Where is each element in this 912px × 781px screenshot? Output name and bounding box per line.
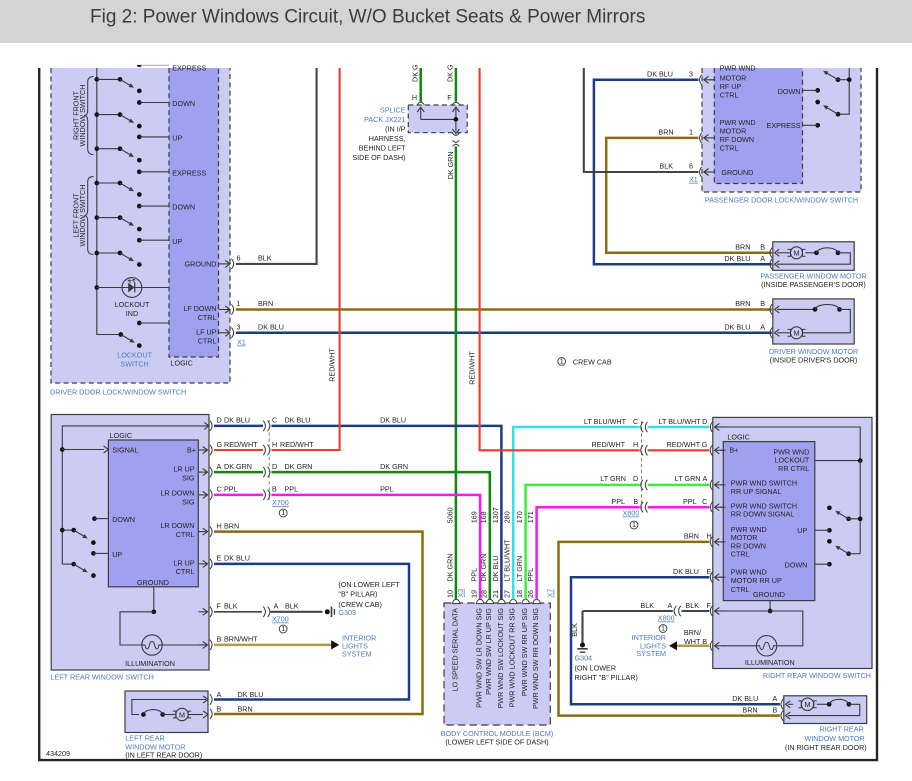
svg-text:PWR WND SW LOCKOUT SIG: PWR WND SW LOCKOUT SIG [496, 608, 505, 709]
svg-text:PACK JX221: PACK JX221 [364, 115, 405, 124]
svg-text:LOGIC: LOGIC [171, 359, 193, 368]
passenger motor internal wiring [774, 252, 776, 254]
svg-text:GROUND: GROUND [721, 168, 753, 177]
passenger switch pin 3 RF UP CTRL [647, 69, 715, 85]
svg-text:EXPRESS: EXPRESS [767, 121, 801, 130]
svg-text:DK BLU: DK BLU [647, 69, 673, 78]
svg-text:LEFT REAR WINDOW SWITCH: LEFT REAR WINDOW SWITCH [51, 673, 154, 682]
driver motor internal wiring [774, 308, 776, 310]
svg-text:DK GRN: DK GRN [224, 462, 252, 471]
wire DK BLU right-rear rr-up to motor pin A [571, 577, 780, 704]
svg-text:1: 1 [560, 357, 564, 366]
passenger switch internal contacts [803, 68, 852, 128]
right rear switch logic box [723, 442, 815, 601]
svg-text:BRN: BRN [684, 532, 699, 541]
svg-text:PWR WND SW LR DOWN SIG: PWR WND SW LR DOWN SIG [475, 608, 484, 708]
svg-text:280: 280 [503, 511, 512, 523]
svg-text:G: G [217, 440, 223, 449]
svg-text:DK BLU: DK BLU [724, 254, 750, 263]
BCM pin 19 PPL 169 [476, 599, 483, 603]
driver switch contact row DOWN y206.1 [137, 203, 195, 212]
svg-text:PWR WND SW RR UP SIG: PWR WND SW RR UP SIG [520, 608, 529, 697]
passenger motor pin A [770, 259, 772, 269]
svg-text:BLK: BLK [659, 162, 673, 171]
driver window switch contact set 5 [94, 215, 141, 231]
svg-text:C: C [633, 417, 638, 426]
svg-text:RR UP SIGNAL: RR UP SIGNAL [731, 487, 782, 496]
svg-text:A: A [760, 323, 765, 332]
left rear motor pin B [210, 709, 212, 719]
svg-text:DK BLU: DK BLU [258, 323, 284, 332]
left rear switch up contact [91, 551, 96, 556]
driver switch contact row DOWN y102.5 [137, 99, 195, 108]
svg-text:B+: B+ [187, 446, 196, 455]
BCM pin 27 LT BLU/WHT 280 [510, 599, 517, 603]
wire BLK left-rear to ground G303 [214, 611, 262, 613]
svg-text:DOWN: DOWN [785, 561, 808, 570]
lockout indicator LED [94, 278, 169, 318]
svg-text:SIG: SIG [182, 474, 195, 483]
wire PPL 169 left-rear to BCM pin 19 [214, 494, 263, 497]
svg-text:INTERIOR: INTERIOR [632, 633, 666, 642]
svg-text:SIGNAL: SIGNAL [112, 446, 138, 455]
svg-text:CREW CAB: CREW CAB [573, 357, 612, 366]
svg-text:UP: UP [797, 526, 807, 535]
crew cab footnote [558, 358, 566, 366]
svg-text:LOGIC: LOGIC [110, 431, 132, 440]
BCM pin 18 LT GRN 170 [522, 599, 529, 603]
svg-text:H: H [707, 532, 712, 541]
svg-text:X800: X800 [658, 614, 675, 623]
passenger motor pin B [770, 248, 772, 258]
passenger switch pin 6 GROUND [659, 162, 714, 178]
svg-text:SIG: SIG [182, 497, 195, 506]
svg-text:RR CTRL: RR CTRL [778, 464, 809, 473]
svg-text:CTRL: CTRL [176, 530, 195, 539]
svg-text:RED/WHT: RED/WHT [280, 440, 314, 449]
svg-text:DK BLU: DK BLU [732, 694, 758, 703]
driver window switch contact set 4 [94, 181, 141, 197]
svg-text:WHT B: WHT B [684, 637, 707, 646]
svg-text:F: F [447, 93, 452, 102]
wire DK GRN into splice pin H [419, 68, 422, 102]
svg-text:SPLICE: SPLICE [380, 105, 406, 114]
svg-text:RIGHT REAR WINDOW SWITCH: RIGHT REAR WINDOW SWITCH [763, 671, 871, 680]
svg-text:LR DOWN: LR DOWN [161, 489, 195, 498]
svg-text:RR DOWN SIGNAL: RR DOWN SIGNAL [731, 510, 795, 519]
svg-text:BRN: BRN [258, 299, 273, 308]
svg-text:LR UP: LR UP [173, 465, 194, 474]
wire LT GRN 170 BCM pin 18 to right rear A [526, 485, 640, 600]
svg-text:DK GRN: DK GRN [479, 554, 488, 582]
svg-text:PPL: PPL [224, 485, 238, 494]
svg-text:C: C [702, 497, 707, 506]
svg-text:A: A [760, 254, 765, 263]
right rear motor internal wiring [785, 703, 787, 705]
svg-text:RED/WHT: RED/WHT [328, 348, 337, 382]
svg-text:CTRL: CTRL [198, 336, 217, 345]
wire BRN left-rear lr-down to motor pin B [214, 532, 423, 714]
BCM pin 10 DK GRN 5060 [453, 599, 460, 603]
wire BRN/WHT to interior lights right [676, 645, 709, 648]
svg-text:LT BLU/WHT: LT BLU/WHT [659, 417, 702, 426]
svg-text:A: A [217, 462, 222, 471]
right rear pin C PPL [710, 502, 712, 512]
svg-text:M: M [794, 249, 800, 258]
svg-text:D: D [217, 416, 222, 425]
svg-text:GROUND: GROUND [753, 590, 785, 599]
svg-text:DK BLU: DK BLU [224, 554, 250, 563]
svg-text:HARNESS,: HARNESS, [369, 134, 406, 143]
right rear switch up contact set [827, 505, 832, 510]
svg-text:10: 10 [446, 590, 455, 598]
left rear pin A DK GRN LR UP SIG [199, 462, 409, 477]
right rear window motor M box [784, 696, 867, 724]
svg-text:LEFT REAR: LEFT REAR [125, 734, 164, 743]
svg-text:DK BLU: DK BLU [238, 690, 264, 699]
svg-text:PPL: PPL [611, 497, 625, 506]
svg-text:A: A [217, 690, 222, 699]
left rear switch ground run and illumination lamp [153, 587, 155, 612]
svg-text:19: 19 [470, 590, 479, 598]
svg-text:DK BLU: DK BLU [491, 556, 500, 582]
left rear switch D-bus wire [62, 426, 209, 564]
svg-text:H: H [412, 93, 417, 102]
svg-text:(ON LOWER LEFT: (ON LOWER LEFT [338, 580, 400, 589]
svg-text:LOCKOUT: LOCKOUT [117, 351, 152, 360]
right rear D-bus wire [720, 427, 861, 461]
svg-text:BODY CONTROL MODULE (BCM): BODY CONTROL MODULE (BCM) [441, 729, 554, 738]
left rear pin H BRN LR DOWN CTRL [199, 521, 240, 536]
svg-text:"B" PILLAR): "B" PILLAR) [338, 590, 377, 599]
svg-text:CTRL: CTRL [176, 567, 195, 576]
svg-text:SIDE OF DASH): SIDE OF DASH) [352, 153, 405, 162]
driver window switch contact set 3 [94, 146, 141, 162]
right rear pin E DK BLU [710, 572, 712, 582]
svg-text:DOWN: DOWN [112, 515, 135, 524]
svg-text:3: 3 [689, 69, 693, 78]
svg-text:ILLUMINATION: ILLUMINATION [125, 659, 175, 668]
svg-text:6: 6 [689, 162, 693, 171]
svg-text:LOGIC: LOGIC [727, 433, 749, 442]
svg-text:PPL: PPL [285, 485, 299, 494]
svg-text:BRN: BRN [224, 521, 239, 530]
svg-text:DK BLU: DK BLU [380, 416, 406, 425]
passenger switch pin 1 RF DOWN CTRL [658, 127, 714, 143]
svg-text:BEHIND LEFT: BEHIND LEFT [359, 144, 406, 153]
svg-text:LF UP: LF UP [196, 328, 217, 337]
svg-text:M: M [805, 700, 811, 709]
svg-text:BRN: BRN [658, 127, 673, 136]
right rear lockout ctrl bus and switches [815, 460, 860, 462]
splice output connector [452, 133, 459, 136]
svg-text:BLK: BLK [685, 601, 699, 610]
passenger switch logic box [714, 68, 802, 184]
svg-text:170: 170 [515, 511, 524, 523]
svg-text:DK BLU: DK BLU [673, 567, 699, 576]
svg-text:RIGHT REAR: RIGHT REAR [819, 724, 863, 733]
wire RED/WHT left-rear B+ to top [214, 449, 263, 451]
driver switch contact row EXPRESS y171.8 [137, 168, 207, 177]
wire BRN driver lf-down to driver motor [236, 308, 772, 311]
svg-text:RED/WHT: RED/WHT [468, 351, 477, 385]
svg-text:WINDOW SWITCH: WINDOW SWITCH [78, 85, 87, 147]
svg-text:(IN I/P: (IN I/P [385, 125, 406, 134]
left rear pin D DK BLU [210, 416, 406, 432]
svg-text:IND: IND [126, 309, 138, 318]
svg-text:B: B [633, 497, 638, 506]
svg-text:UP: UP [172, 134, 182, 143]
svg-text:LT BLU/WHT: LT BLU/WHT [503, 539, 512, 582]
svg-text:X7: X7 [546, 589, 555, 598]
left rear switch down blade [60, 528, 65, 533]
svg-text:(IN RIGHT REAR DOOR): (IN RIGHT REAR DOOR) [785, 743, 867, 752]
passenger window motor M box [773, 242, 854, 270]
svg-text:171: 171 [526, 511, 535, 523]
svg-text:CTRL: CTRL [720, 91, 739, 100]
svg-text:434209: 434209 [46, 749, 70, 758]
svg-text:(IN LEFT REAR DOOR): (IN LEFT REAR DOOR) [125, 751, 202, 760]
svg-text:UP: UP [112, 550, 122, 559]
svg-text:MOTOR RR UP: MOTOR RR UP [731, 576, 782, 585]
svg-text:RED/WHT: RED/WHT [591, 440, 625, 449]
svg-text:X800: X800 [623, 509, 640, 518]
svg-text:(INSIDE PASSENGER'S DOOR): (INSIDE PASSENGER'S DOOR) [761, 280, 866, 289]
driver switch contact row UP y136.9 [137, 134, 183, 143]
svg-text:B: B [217, 705, 222, 714]
svg-text:B: B [760, 299, 765, 308]
left rear motor pin A [210, 694, 212, 704]
svg-text:SWITCH: SWITCH [120, 360, 148, 369]
passenger door lock/window switch (outer box) [702, 68, 861, 192]
svg-text:LO SPEED SERIAL DATA: LO SPEED SERIAL DATA [451, 608, 460, 692]
right rear window switch (outer box) [713, 417, 872, 668]
svg-text:LF DOWN: LF DOWN [183, 304, 216, 313]
svg-text:X700: X700 [272, 498, 289, 507]
svg-text:PWR WND SW LR UP SIG: PWR WND SW LR UP SIG [484, 608, 493, 695]
svg-text:A: A [274, 602, 279, 611]
svg-text:(LOWER LEFT SIDE OF DASH): (LOWER LEFT SIDE OF DASH) [445, 738, 548, 747]
svg-text:RED/WHT: RED/WHT [224, 440, 258, 449]
svg-text:SYSTEM: SYSTEM [342, 650, 372, 659]
svg-text:28: 28 [479, 590, 488, 598]
left rear pin F BLK ground [199, 602, 299, 617]
left rear switch up blade [62, 563, 73, 565]
splice internal link and junction [421, 118, 456, 120]
wire DK BLU left-rear lr-up to motor pin A [214, 564, 409, 700]
brace left front window switch [84, 177, 93, 255]
svg-text:168: 168 [479, 511, 488, 523]
BCM pin 21 DK BLU 1307 [498, 599, 505, 603]
driver switch pin 1 LF DOWN CTRL [183, 299, 273, 322]
svg-text:PPL: PPL [526, 568, 535, 582]
svg-text:M: M [179, 710, 185, 719]
svg-text:PASSENGER DOOR LOCK/WINDOW SWI: PASSENGER DOOR LOCK/WINDOW SWITCH [705, 196, 858, 205]
right rear switch down contact set [827, 539, 832, 544]
svg-text:X700: X700 [272, 615, 289, 624]
wire DK BLU driver lf-up to driver motor [236, 332, 772, 335]
svg-text:BRN: BRN [742, 705, 757, 714]
wire RED/WHT right to right rear B+ [480, 68, 640, 450]
svg-text:SYSTEM: SYSTEM [636, 649, 666, 658]
svg-text:26: 26 [526, 590, 535, 598]
svg-text:PWR WND SW RR DOWN SIG: PWR WND SW RR DOWN SIG [531, 608, 540, 709]
svg-text:X1: X1 [237, 338, 246, 347]
svg-text:BLK: BLK [258, 254, 272, 263]
left rear switch down contact [92, 516, 97, 521]
svg-text:C: C [217, 485, 222, 494]
svg-text:BRN: BRN [735, 299, 750, 308]
svg-text:DK GRN: DK GRN [446, 151, 455, 179]
svg-text:F: F [217, 602, 222, 611]
splice pack JX221 box [408, 105, 467, 133]
wire DK GRN 168 left-rear to BCM pin 28 [214, 471, 263, 474]
driver switch logic box U-LOGIC [169, 68, 219, 357]
svg-text:LOCKOUT: LOCKOUT [115, 300, 150, 309]
svg-text:D: D [633, 474, 638, 483]
svg-text:BLK: BLK [224, 602, 238, 611]
right rear pin G RED/WHT B+ [710, 445, 712, 455]
wire BRN passenger rf-down [606, 138, 772, 253]
svg-text:DK GRN: DK GRN [380, 462, 408, 471]
svg-text:F: F [707, 601, 712, 610]
BCM pin 26 PPL 171 [533, 599, 540, 603]
svg-text:Fig 2: Power Windows Circuit,: Fig 2: Power Windows Circuit, W/O Bucket… [90, 6, 645, 27]
left rear window motor M box [125, 691, 208, 733]
wire DK BLU 1307 left-rear D to BCM pin 21 [214, 425, 263, 428]
driver switch contact row UP y240.2 [137, 237, 183, 246]
svg-text:CTRL: CTRL [731, 550, 750, 559]
connector X700 main [268, 420, 270, 500]
left rear pin C PPL LR DOWN SIG [199, 485, 394, 501]
svg-text:1: 1 [689, 127, 693, 136]
svg-text:1: 1 [237, 299, 241, 308]
right rear pin A LT GRN [710, 480, 712, 490]
left rear pin G RED/WHT B+ [199, 440, 315, 455]
wire LT BLU/WHT 280 BCM pin 27 to right rear D [513, 427, 640, 600]
wire BLK passenger ground to top [584, 68, 699, 172]
svg-text:1307: 1307 [491, 507, 500, 523]
svg-text:DK GRN: DK GRN [285, 462, 313, 471]
right rear pin H BRN [710, 537, 712, 547]
brace right front window switch [84, 77, 93, 155]
driver door lock/window switch (outer box) [51, 68, 230, 383]
svg-text:PPL: PPL [470, 568, 479, 582]
svg-text:BLK: BLK [285, 602, 299, 611]
svg-text:E: E [217, 554, 222, 563]
svg-text:BRN/WHT: BRN/WHT [224, 635, 258, 644]
left rear pin B BRN/WHT illumination [199, 635, 259, 650]
svg-text:X1: X1 [689, 175, 698, 184]
svg-text:G: G [702, 440, 708, 449]
driver motor pin B [770, 304, 772, 314]
wire BLK right-rear to ground G304 [682, 610, 710, 612]
svg-text:DK BLU: DK BLU [224, 416, 250, 425]
svg-text:5060: 5060 [446, 507, 455, 523]
svg-text:H: H [633, 440, 638, 449]
svg-text:RIGHT "B" PILLAR): RIGHT "B" PILLAR) [575, 673, 638, 682]
svg-text:PPL: PPL [683, 497, 697, 506]
svg-text:BLK: BLK [570, 623, 579, 637]
left rear window switch (outer box) [51, 415, 209, 671]
svg-text:B: B [217, 635, 222, 644]
svg-text:B: B [773, 705, 778, 714]
svg-text:DK BLU: DK BLU [724, 323, 750, 332]
svg-text:DOWN: DOWN [778, 87, 801, 96]
left rear switch logic box [108, 440, 198, 587]
svg-text:A: A [773, 694, 778, 703]
svg-text:PPL: PPL [380, 485, 394, 494]
svg-text:DK BLU: DK BLU [285, 416, 311, 425]
wire DK GRN into splice pin F [455, 68, 458, 102]
svg-text:DK GRN: DK GRN [446, 554, 455, 582]
left rear motor internal wiring [132, 700, 206, 715]
BCM pin 28 DK GRN 168 [486, 599, 493, 603]
right rear motor pin A [781, 699, 783, 709]
svg-text:LT GRN: LT GRN [675, 474, 701, 483]
svg-text:DOWN: DOWN [172, 99, 195, 108]
svg-text:D: D [702, 417, 707, 426]
svg-text:21: 21 [491, 590, 500, 598]
right rear pin F BLK [710, 606, 712, 616]
left rear switch signal tap junction [60, 447, 65, 452]
svg-text:BLK: BLK [640, 601, 654, 610]
svg-text:X3: X3 [456, 589, 465, 598]
svg-text:UP: UP [172, 237, 182, 246]
svg-text:B: B [760, 243, 765, 252]
right rear motor pin B [781, 710, 783, 720]
driver switch supply bus wire [97, 68, 121, 335]
svg-text:DOWN: DOWN [172, 203, 195, 212]
svg-text:A: A [703, 474, 708, 483]
svg-text:1: 1 [661, 624, 665, 633]
svg-text:BRN: BRN [735, 243, 750, 252]
driver window motor M box [773, 299, 854, 344]
svg-text:A: A [668, 601, 673, 610]
svg-text:CTRL: CTRL [198, 313, 217, 322]
svg-text:3: 3 [237, 323, 241, 332]
driver switch contact row EXPRESS top (cut) [137, 62, 207, 72]
svg-text:GROUND: GROUND [137, 578, 169, 587]
svg-text:CTRL: CTRL [720, 143, 739, 152]
ground G304 [580, 643, 585, 648]
wire DK GRN 5060 splice to BCM pin 10 [455, 146, 458, 599]
svg-text:GROUND: GROUND [185, 260, 217, 269]
svg-text:1: 1 [281, 624, 285, 633]
svg-text:ILLUMINATION: ILLUMINATION [745, 658, 795, 667]
driver switch pin 6 GROUND [185, 254, 272, 270]
wire BRN right-rear rr-down to motor pin B [559, 542, 781, 716]
svg-text:LR DOWN: LR DOWN [161, 521, 195, 530]
ground G303 [325, 609, 330, 614]
top crop mask [0, 43, 912, 65]
right rear pin D LT BLU/WHT [710, 422, 712, 432]
svg-text:(ON LOWER: (ON LOWER [575, 663, 617, 672]
svg-text:C: C [272, 416, 277, 425]
driver switch pin 3 LF UP CTRL [196, 323, 284, 346]
svg-text:18: 18 [515, 590, 524, 598]
driver window switch contact set 1 [94, 77, 141, 93]
wire DK BLU passenger rf-up [594, 80, 772, 264]
svg-text:LT BLU/WHT: LT BLU/WHT [584, 417, 627, 426]
connector X800 main [641, 421, 643, 512]
driver motor pin A [770, 328, 772, 338]
svg-text:1: 1 [281, 508, 285, 517]
svg-text:M: M [794, 329, 800, 338]
svg-text:(CREW CAB): (CREW CAB) [338, 600, 382, 609]
svg-text:G304: G304 [575, 653, 593, 662]
wire BLK driver ground to top [236, 68, 317, 264]
